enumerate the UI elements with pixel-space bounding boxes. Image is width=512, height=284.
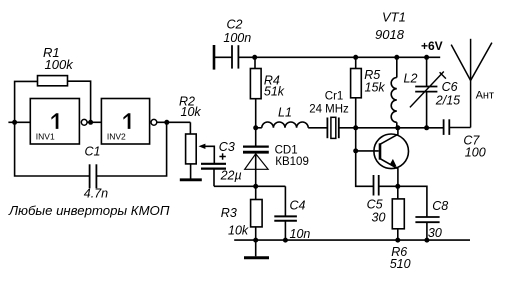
svg-text:INV2: INV2 [107,132,126,142]
svg-text:C3: C3 [219,140,235,154]
svg-text:C6: C6 [442,80,458,94]
svg-text:+6V: +6V [421,39,443,53]
svg-text:10k: 10k [181,105,202,119]
svg-text:30: 30 [428,226,442,240]
svg-text:Ант: Ант [476,90,494,102]
svg-text:10k: 10k [228,224,249,238]
svg-text:2/15: 2/15 [435,94,460,108]
svg-text:10n: 10n [290,227,311,241]
svg-text:9018: 9018 [375,27,405,42]
svg-text:КВ109: КВ109 [275,156,309,168]
svg-text:22µ: 22µ [220,169,242,183]
svg-text:100k: 100k [45,57,75,72]
svg-text:C4: C4 [290,199,306,213]
svg-text:15k: 15k [365,80,386,94]
svg-text:C2: C2 [227,18,243,32]
svg-text:C8: C8 [432,199,448,213]
svg-text:Любые инверторы КМОП: Любые инверторы КМОП [8,203,170,218]
svg-text:VT1: VT1 [382,10,406,25]
svg-text:R3: R3 [221,206,237,220]
svg-text:100n: 100n [223,31,251,45]
svg-text:CD1: CD1 [275,145,298,157]
svg-text:INV1: INV1 [36,132,55,142]
svg-text:30: 30 [372,210,386,224]
svg-text:51k: 51k [264,85,285,99]
svg-text:24 MHz: 24 MHz [309,104,349,116]
svg-text:C1: C1 [85,145,101,159]
svg-text:Cr1: Cr1 [325,91,344,103]
svg-text:510: 510 [390,257,411,271]
svg-text:L2: L2 [404,71,418,85]
svg-text:100: 100 [465,146,486,160]
svg-text:4.7n: 4.7n [84,186,108,200]
svg-text:L1: L1 [278,105,292,119]
